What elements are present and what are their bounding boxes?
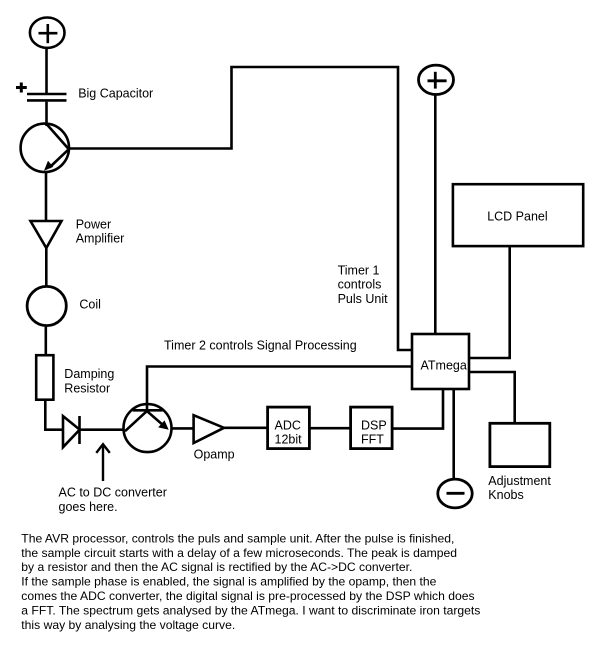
diode (rectifier): [63, 416, 80, 447]
wire: coil to damping resistor: [44, 326, 47, 356]
positive supply terminal (top-right): [419, 65, 454, 94]
damping resistor: [36, 355, 53, 400]
svg-text:controls: controls: [338, 278, 382, 292]
svg-text:Damping: Damping: [64, 367, 114, 381]
wire: Q2 to opamp: [171, 427, 193, 430]
transistor Q2 (sample unit): [124, 404, 172, 452]
svg-text:Puls Unit: Puls Unit: [338, 292, 389, 306]
transistor Q2 emitter arrowhead: [158, 420, 169, 429]
wire: Q1 base to ATmega (top loop): [68, 67, 412, 350]
svg-text:FFT: FFT: [361, 432, 384, 446]
svg-text:ATmega: ATmega: [421, 358, 467, 372]
polarity plus mark: [16, 83, 27, 93]
wire: ADC to DSP: [309, 427, 350, 430]
wire: Timer2 net from ATmega to Q2 base: [147, 367, 412, 411]
ADC 12bit box: [268, 407, 310, 449]
power amplifier triangle: [31, 221, 62, 248]
svg-text:Timer 2 controls Signal Proces: Timer 2 controls Signal Processing: [164, 339, 357, 353]
svg-text:Timer 1: Timer 1: [338, 264, 380, 278]
AC to DC pointer arrow: [96, 444, 110, 481]
wire: power amplifier to coil: [45, 248, 48, 288]
svg-text:by a resistor and then the AC: by a resistor and then the AC signal is …: [21, 560, 412, 574]
transistor Q1 emitter arrowhead: [44, 161, 53, 171]
wire: ATmega right to adjustment knobs: [469, 372, 515, 423]
LCD Panel box: [453, 184, 583, 246]
svg-text:Resistor: Resistor: [64, 381, 110, 395]
svg-text:this way by analysing the volt: this way by analysing the voltage curve.: [21, 618, 235, 632]
svg-text:Coil: Coil: [79, 298, 101, 312]
wire: diode to sample transistor Q2: [80, 428, 125, 431]
wire: capacitor to transistor Q1: [45, 102, 48, 126]
wire: DSP to ATmega: [392, 389, 443, 429]
coil: [27, 286, 66, 325]
negative supply terminal (bottom): [438, 479, 472, 508]
adjustment knobs box: [490, 423, 550, 466]
svg-text:the sample circuit starts with: the sample circuit starts with a delay o…: [21, 546, 457, 560]
svg-text:Amplifier: Amplifier: [76, 232, 125, 246]
wire: LCD Panel to ATmega right: [469, 246, 510, 358]
ATmega box: [412, 334, 469, 389]
svg-text:Knobs: Knobs: [488, 488, 523, 502]
svg-text:12bit: 12bit: [275, 432, 303, 446]
wire: damping resistor to diode: [45, 400, 63, 430]
positive supply terminal (top-left): [30, 18, 65, 48]
svg-text:AC to DC converter: AC to DC converter: [59, 486, 167, 500]
svg-text:goes here.: goes here.: [59, 500, 118, 514]
transistor Q1 (puls unit): [21, 124, 69, 172]
DSP FFT box: [351, 407, 393, 449]
capacitor C (Big Capacitor): [27, 94, 67, 100]
svg-text:a FFT. The spectrum gets analy: a FFT. The spectrum gets analysed by the…: [21, 603, 480, 617]
wire: +terminal to ATmega top: [434, 94, 437, 334]
svg-text:Adjustment: Adjustment: [488, 474, 551, 488]
opamp triangle: [194, 415, 224, 443]
svg-text:ADC: ADC: [275, 418, 301, 432]
svg-text:comes the ADC converter, the d: comes the ADC converter, the digital sig…: [21, 589, 474, 603]
svg-text:DSP: DSP: [361, 418, 387, 432]
svg-text:Opamp: Opamp: [194, 447, 235, 461]
wire: Q1 emitter down to power amplifier: [45, 172, 48, 221]
svg-text:The AVR processor, controls th: The AVR processor, controls the puls and…: [21, 531, 454, 545]
wire: +terminal to capacitor: [45, 48, 48, 93]
description paragraph: [21, 531, 480, 631]
svg-text:Big Capacitor: Big Capacitor: [78, 86, 153, 100]
svg-text:Power: Power: [76, 218, 111, 232]
wire: ATmega bottom to negative terminal: [452, 389, 455, 479]
svg-text:If the sample phase is enabled: If the sample phase is enabled, the sign…: [21, 575, 436, 589]
svg-text:LCD Panel: LCD Panel: [487, 209, 547, 223]
wire: opamp to ADC: [224, 426, 268, 429]
